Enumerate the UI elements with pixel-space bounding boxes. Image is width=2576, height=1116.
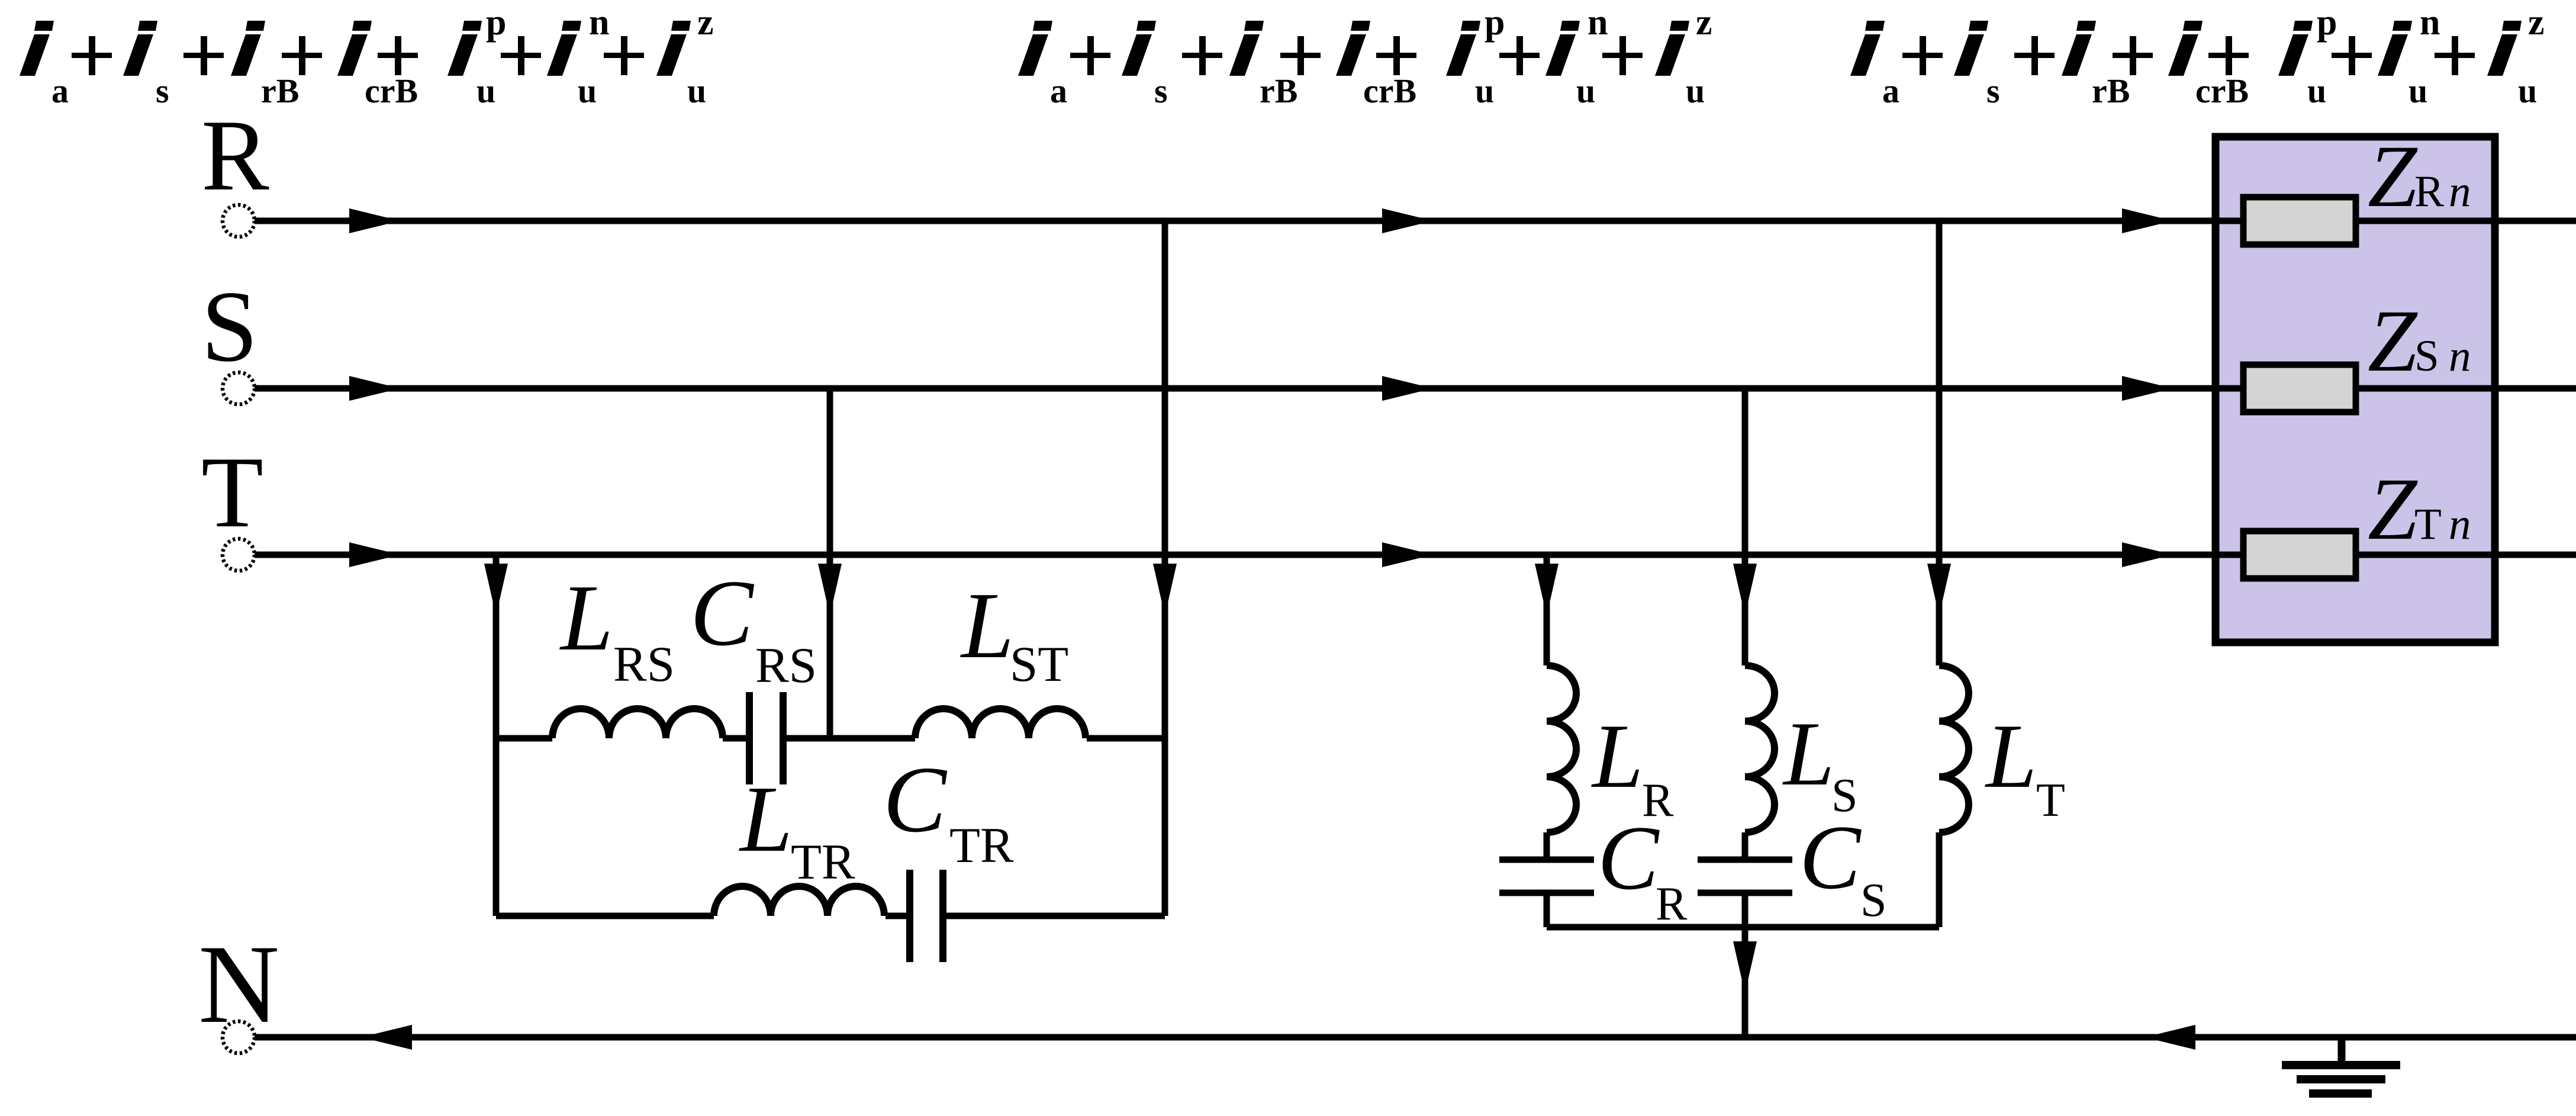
svg-text:L: L bbox=[1782, 703, 1834, 805]
arrow R current bbox=[1382, 208, 1433, 233]
svg-text:rB: rB bbox=[2092, 72, 2130, 110]
svg-text:p: p bbox=[2317, 2, 2337, 43]
svg-text:RS: RS bbox=[755, 638, 817, 693]
svg-text:R: R bbox=[201, 99, 269, 212]
svg-text:crB: crB bbox=[2195, 72, 2249, 110]
capacitor C_R bbox=[1499, 857, 1594, 863]
resistor Z_Rn bbox=[2243, 197, 2356, 245]
resistor Z_Tn bbox=[2243, 531, 2356, 578]
svg-text:T: T bbox=[201, 436, 263, 549]
label C_R bbox=[1598, 807, 1688, 930]
arrow down neutral drop bbox=[1733, 941, 1757, 993]
terminal R bbox=[223, 205, 255, 237]
svg-text:z: z bbox=[2528, 2, 2545, 43]
arrow T current bbox=[2122, 542, 2173, 567]
capacitor C_S bbox=[1698, 857, 1792, 863]
wire wye neutral drop bbox=[1742, 927, 1749, 1037]
wire L_T to rail bbox=[1936, 832, 1943, 927]
wire N neutral line bbox=[255, 1034, 2576, 1041]
inductor L_S bbox=[1745, 665, 1775, 832]
svg-text:C: C bbox=[690, 560, 755, 665]
wire wye branch1 top bbox=[1544, 555, 1550, 665]
svg-text:s: s bbox=[1154, 72, 1168, 110]
wire delta row2 left bbox=[496, 913, 714, 919]
svg-text:S: S bbox=[201, 271, 258, 383]
arrow R current bbox=[349, 208, 400, 233]
label L_TR bbox=[739, 766, 855, 890]
svg-text:z: z bbox=[1696, 2, 1712, 43]
svg-text:RS: RS bbox=[613, 636, 675, 692]
svg-text:u: u bbox=[687, 72, 706, 110]
arrow N current left 2 bbox=[2144, 1025, 2195, 1050]
wire S phase line bbox=[255, 385, 2576, 392]
wire C_TR to R drop bbox=[946, 913, 1165, 919]
label C_RS bbox=[690, 560, 817, 693]
svg-text:Z: Z bbox=[2368, 460, 2418, 558]
arrow T current bbox=[349, 542, 400, 567]
inductor L_RS bbox=[552, 709, 723, 738]
arrow down wye branch2 bbox=[1733, 564, 1757, 616]
arrow R current bbox=[2122, 208, 2173, 233]
svg-text:L: L bbox=[559, 565, 613, 670]
svg-text:R: R bbox=[1656, 878, 1688, 930]
svg-text:C: C bbox=[1598, 807, 1660, 909]
svg-text:TR: TR bbox=[791, 834, 855, 890]
capacitor C_TR bbox=[906, 870, 913, 962]
svg-text:a: a bbox=[1882, 72, 1899, 110]
arrow down S drop bbox=[818, 564, 842, 616]
svg-text:z: z bbox=[697, 2, 714, 43]
arrow S current bbox=[349, 376, 400, 401]
wire C_S to rail bbox=[1742, 896, 1749, 927]
inductor L_TR bbox=[714, 886, 884, 916]
svg-text:L: L bbox=[1985, 705, 2037, 807]
terminal T bbox=[223, 539, 255, 571]
svg-text:a: a bbox=[1050, 72, 1067, 110]
wire L_ST to R drop bbox=[1087, 735, 1165, 742]
svg-text:T: T bbox=[2414, 500, 2442, 549]
label C_S bbox=[1799, 806, 1887, 927]
wire R phase line bbox=[255, 218, 2576, 224]
svg-text:S: S bbox=[2414, 332, 2439, 381]
svg-text:u: u bbox=[2518, 72, 2537, 110]
svg-text:T: T bbox=[2036, 774, 2065, 826]
arrow down R drop bbox=[1153, 564, 1177, 616]
wire C_RS to L_ST bbox=[786, 735, 915, 742]
svg-text:L: L bbox=[960, 573, 1014, 678]
arrow T current bbox=[1382, 542, 1433, 567]
svg-text:u: u bbox=[1686, 72, 1705, 110]
label Z_Sn bbox=[2368, 292, 2471, 390]
arrow down wye branch1 bbox=[1535, 564, 1559, 616]
svg-text:s: s bbox=[1986, 72, 2000, 110]
svg-text:a: a bbox=[51, 72, 69, 110]
wire wye branch2 top bbox=[1742, 388, 1749, 665]
arrow down wye branch3 bbox=[1927, 564, 1951, 616]
svg-text:S: S bbox=[1860, 874, 1887, 927]
label L_R bbox=[1591, 705, 1674, 826]
arrow S current bbox=[2122, 376, 2173, 401]
label L_ST bbox=[960, 573, 1068, 692]
svg-text:TR: TR bbox=[949, 818, 1014, 873]
label L_T bbox=[1985, 705, 2065, 826]
svg-text:L: L bbox=[739, 766, 793, 871]
svg-text:C: C bbox=[1799, 806, 1862, 908]
svg-text:u: u bbox=[476, 72, 495, 110]
label Z_Rn bbox=[2368, 127, 2471, 226]
svg-text:R: R bbox=[2414, 167, 2444, 216]
label L_S bbox=[1782, 703, 1858, 822]
svg-text:crB: crB bbox=[1363, 72, 1416, 110]
svg-text:u: u bbox=[2408, 72, 2427, 110]
svg-text:u: u bbox=[2307, 72, 2326, 110]
svg-text:n: n bbox=[2449, 167, 2471, 216]
wire L_S to C_S bbox=[1742, 832, 1749, 857]
label C_TR bbox=[883, 747, 1014, 873]
svg-text:n: n bbox=[2420, 2, 2440, 43]
svg-text:n: n bbox=[1588, 2, 1608, 43]
node left current formula i_a+i_s+i_rB+i_crB+i_u^p+i_u^n+i_u^z bbox=[20, 2, 714, 110]
svg-text:L: L bbox=[1591, 705, 1643, 807]
wire wye bottom rail bbox=[1547, 924, 1939, 931]
wire T phase line bbox=[255, 552, 2576, 558]
wire L_TR to C_TR bbox=[885, 913, 907, 919]
wire R-phase drop to delta filter bbox=[1162, 221, 1168, 916]
svg-text:rB: rB bbox=[1260, 72, 1297, 110]
svg-text:p: p bbox=[486, 2, 506, 43]
load box bbox=[2216, 137, 2495, 642]
inductor L_ST bbox=[915, 709, 1086, 738]
svg-text:Z: Z bbox=[2368, 127, 2418, 226]
svg-text:Z: Z bbox=[2368, 292, 2418, 390]
arrow S current bbox=[1382, 376, 1433, 401]
node right current formula i_a+i_s+i_rB+i_crB+i_u^p+i_u^n+i_u^z bbox=[1850, 2, 2545, 110]
svg-text:p: p bbox=[1485, 2, 1505, 43]
wire L_R to C_R bbox=[1544, 832, 1550, 857]
svg-text:u: u bbox=[1576, 72, 1595, 110]
terminal N bbox=[223, 1021, 255, 1053]
svg-text:ST: ST bbox=[1010, 636, 1068, 692]
label Z_Tn bbox=[2368, 460, 2471, 558]
wire delta row1 left bbox=[496, 735, 552, 742]
wire wye branch3 top bbox=[1936, 221, 1943, 665]
wire C_R to rail bbox=[1544, 896, 1550, 927]
wire T-phase drop to delta filter bbox=[493, 555, 500, 916]
resistor Z_Sn bbox=[2243, 365, 2356, 412]
ground bbox=[2282, 1037, 2400, 1094]
svg-text:u: u bbox=[578, 72, 597, 110]
svg-text:s: s bbox=[156, 72, 169, 110]
terminal S bbox=[223, 372, 255, 404]
inductor L_R bbox=[1547, 665, 1576, 832]
capacitor C_RS bbox=[746, 692, 753, 784]
svg-text:crB: crB bbox=[365, 72, 418, 110]
svg-text:u: u bbox=[1475, 72, 1494, 110]
svg-text:n: n bbox=[2449, 500, 2471, 549]
inductor L_T bbox=[1939, 665, 1969, 832]
arrow down T drop bbox=[484, 564, 508, 616]
arrow N current left bbox=[361, 1025, 412, 1050]
svg-text:n: n bbox=[2449, 332, 2471, 381]
wire L_RS to C_RS bbox=[723, 735, 746, 742]
label L_RS bbox=[559, 565, 675, 692]
wire S-phase drop to delta filter bbox=[827, 388, 833, 738]
svg-text:C: C bbox=[883, 747, 948, 852]
node middle current formula i_a+i_s+i_rB+i_crB+i_u^p+i_u^n+i_u^z bbox=[1018, 2, 1712, 110]
svg-text:n: n bbox=[589, 2, 609, 43]
